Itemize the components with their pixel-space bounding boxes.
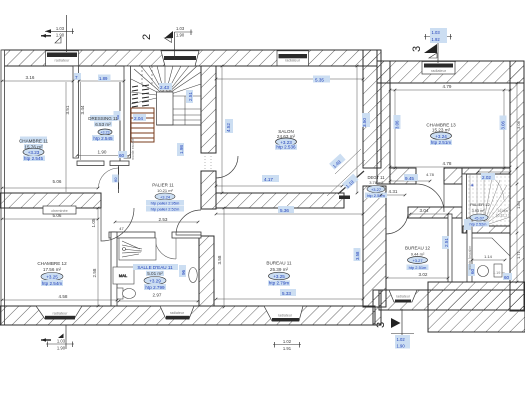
svg-text:+3.29: +3.29 — [149, 279, 161, 284]
svg-text:1.98: 1.98 — [179, 145, 184, 154]
svg-text:9.45: 9.45 — [405, 176, 414, 181]
svg-text:16:32:1 S: 16:32:1 S — [496, 214, 512, 218]
svg-text:4.17: 4.17 — [264, 177, 273, 182]
svg-text:1.03: 1.03 — [56, 26, 65, 31]
svg-text:3.06: 3.06 — [395, 120, 400, 129]
svg-text:6.53 m²: 6.53 m² — [95, 122, 111, 127]
svg-text:PALIER 12: PALIER 12 — [470, 202, 490, 207]
svg-text:2.02: 2.02 — [482, 175, 491, 180]
svg-text:2.58: 2.58 — [92, 268, 97, 277]
svg-text:3.58: 3.58 — [355, 251, 360, 260]
svg-text:15.23 m²: 15.23 m² — [432, 127, 451, 132]
svg-text:+3.23: +3.23 — [100, 131, 109, 135]
svg-text:9.44 m²: 9.44 m² — [411, 252, 425, 257]
svg-text:2: 2 — [141, 34, 153, 40]
svg-text:1.90: 1.90 — [397, 344, 406, 349]
svg-text:96: 96 — [181, 269, 186, 275]
svg-text:radiateur: radiateur — [170, 311, 185, 315]
svg-text:1.05: 1.05 — [91, 218, 96, 227]
svg-text:4.79: 4.79 — [443, 84, 452, 89]
svg-text:radiateur: radiateur — [396, 295, 411, 299]
svg-text:htp 2.51m: htp 2.51m — [409, 265, 427, 270]
svg-text:htp 2.799: htp 2.799 — [145, 285, 165, 290]
svg-text:4.52: 4.52 — [226, 123, 231, 132]
svg-text:5.33: 5.33 — [282, 291, 291, 296]
svg-text:17.56 m²: 17.56 m² — [43, 267, 62, 272]
svg-text:10.21 m²: 10.21 m² — [157, 188, 173, 193]
svg-text:25.39 m²: 25.39 m² — [270, 267, 289, 272]
svg-text:2.51: 2.51 — [444, 238, 449, 247]
svg-text:monte escalier: monte escalier — [131, 136, 135, 160]
svg-text:1.02: 1.02 — [283, 339, 292, 344]
svg-text:DRESSING 11: DRESSING 11 — [88, 116, 118, 121]
svg-text:+3.24: +3.24 — [160, 195, 171, 200]
svg-text:2.97: 2.97 — [153, 293, 162, 298]
svg-text:radiateur: radiateur — [278, 314, 293, 318]
svg-text:3.04: 3.04 — [420, 208, 429, 213]
svg-text:2.43: 2.43 — [160, 85, 169, 90]
svg-text:4.78: 4.78 — [443, 161, 452, 166]
svg-text:htp 2.52m: htp 2.52m — [470, 223, 487, 227]
svg-text:MAL: MAL — [119, 273, 128, 278]
svg-text:SALLE D'EAU 11: SALLE D'EAU 11 — [137, 265, 173, 270]
svg-text:htp 2.54m: htp 2.54m — [42, 281, 63, 286]
svg-text:60: 60 — [504, 275, 510, 280]
svg-text:+3.24: +3.24 — [435, 134, 447, 139]
svg-text:1.84: 1.84 — [516, 200, 521, 209]
svg-text:5.36: 5.36 — [280, 208, 289, 213]
svg-text:1.91: 1.91 — [283, 346, 292, 351]
svg-text:1.03: 1.03 — [432, 30, 441, 35]
svg-text:BUREAU 12: BUREAU 12 — [405, 246, 431, 251]
svg-text:3.58: 3.58 — [217, 255, 222, 264]
svg-text:radiateur: radiateur — [53, 312, 69, 316]
svg-text:PALIER 11: PALIER 11 — [152, 183, 174, 188]
svg-text:htp palier 2.95m: htp palier 2.95m — [151, 201, 180, 206]
svg-text:1.02: 1.02 — [397, 337, 406, 342]
svg-text:7: 7 — [75, 75, 78, 80]
svg-text:4.31: 4.31 — [389, 189, 398, 194]
svg-text:+3.25: +3.25 — [273, 274, 285, 279]
svg-text:monte l'escalier: monte l'escalier — [468, 245, 472, 270]
svg-text:5.06: 5.06 — [53, 179, 62, 184]
svg-text:4.78: 4.78 — [426, 172, 435, 177]
svg-text:htp 2.79m: htp 2.79m — [269, 281, 290, 286]
svg-text:3.93 m²: 3.93 m² — [472, 209, 486, 213]
svg-text:3.50: 3.50 — [362, 118, 367, 127]
svg-text:3.06: 3.06 — [516, 120, 521, 129]
svg-text:+3.27: +3.27 — [412, 258, 423, 263]
svg-text:radiateur: radiateur — [55, 59, 71, 63]
svg-text:1.92: 1.92 — [432, 37, 441, 42]
svg-text:1.90: 1.90 — [56, 33, 65, 38]
svg-text:htp 2.51m: htp 2.51m — [431, 140, 452, 145]
svg-text:3.06: 3.06 — [501, 121, 506, 130]
svg-text:2.51: 2.51 — [188, 92, 193, 101]
svg-text:1.19 m: 1.19 m — [493, 271, 505, 275]
svg-text:1.90: 1.90 — [98, 150, 107, 155]
svg-text:2.53: 2.53 — [159, 217, 168, 222]
svg-text:4.58: 4.58 — [59, 294, 68, 299]
svg-text:3.78 m²: 3.78 m² — [369, 180, 383, 185]
svg-text:radiateur: radiateur — [431, 69, 447, 73]
svg-text:47: 47 — [119, 226, 124, 231]
svg-text:+3.27: +3.27 — [371, 187, 382, 192]
svg-text:radiateur: radiateur — [285, 59, 301, 63]
svg-text:+3.25: +3.25 — [46, 275, 58, 280]
svg-text:60: 60 — [113, 177, 118, 182]
svg-text:1.03: 1.03 — [57, 339, 66, 344]
svg-text:htp 2.52m: htp 2.52m — [367, 193, 385, 198]
svg-text:+3.23: +3.23 — [28, 150, 40, 155]
svg-text:1.71: 1.71 — [516, 250, 521, 259]
svg-text:1.90: 1.90 — [176, 33, 185, 38]
svg-text:BUREAU 11: BUREAU 11 — [266, 261, 292, 266]
svg-text:htp palier 2.52m: htp palier 2.52m — [151, 207, 180, 212]
svg-text:htp 2.545: htp 2.545 — [93, 136, 113, 141]
svg-text:CHAMBRE 12: CHAMBRE 12 — [37, 261, 67, 266]
svg-text:3.44: 3.44 — [80, 105, 85, 114]
svg-text:5.01 m²: 5.01 m² — [147, 271, 163, 276]
svg-text:1.03: 1.03 — [176, 26, 185, 31]
svg-text:16 Mar: 16 Mar — [498, 209, 510, 213]
svg-text:htp 2.536: htp 2.536 — [276, 145, 296, 150]
svg-text:1.89: 1.89 — [99, 76, 108, 81]
svg-text:3.16: 3.16 — [26, 75, 35, 80]
svg-text:1.90: 1.90 — [57, 346, 66, 351]
svg-text:✳: ✳ — [470, 183, 474, 189]
svg-text:CHAMBRE 11: CHAMBRE 11 — [19, 139, 48, 144]
svg-text:5.06: 5.06 — [53, 213, 62, 218]
svg-text:60: 60 — [119, 153, 125, 158]
svg-text:3.51: 3.51 — [65, 105, 70, 114]
svg-text:5.35: 5.35 — [315, 77, 324, 82]
svg-text:2.04: 2.04 — [134, 116, 143, 121]
svg-text:3: 3 — [411, 46, 423, 52]
svg-text:3.02: 3.02 — [419, 272, 428, 277]
svg-text:3: 3 — [375, 322, 387, 328]
svg-text:htp 2.545: htp 2.545 — [24, 156, 44, 161]
svg-text:+5.07: +5.07 — [474, 216, 485, 221]
svg-text:1.14: 1.14 — [484, 254, 493, 259]
